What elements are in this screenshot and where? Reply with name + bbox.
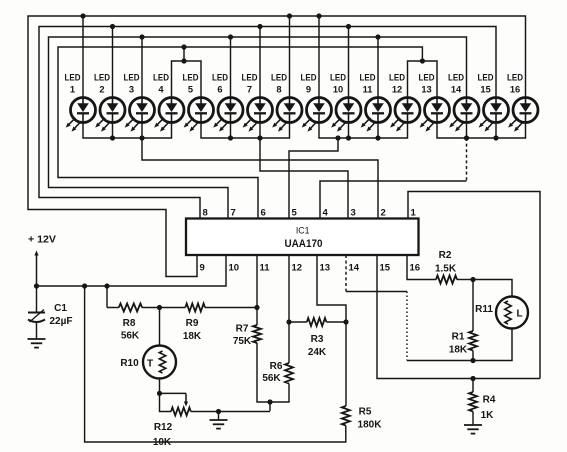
node +12V junction dots — [34, 283, 110, 288]
pin 16 label — [410, 263, 421, 274]
LED 8 — [271, 73, 302, 132]
resistor R6 56K — [262, 361, 293, 402]
LED 3 — [124, 73, 155, 132]
svg-text:24K: 24K — [308, 347, 327, 358]
svg-text:R5: R5 — [359, 407, 372, 418]
svg-text:LED: LED — [389, 73, 405, 83]
capacitor C1 22uF — [28, 286, 73, 339]
wire anode bus B (LEDs 2-7-10-15) routed down left side to pin 8 — [39, 24, 496, 219]
op-amp IC1 UAA170 LED driver — [186, 219, 419, 256]
wire pin 16 to R2 — [407, 255, 436, 280]
svg-text:11: 11 — [260, 263, 271, 274]
svg-text:4: 4 — [323, 208, 329, 219]
node R12/ground junction — [216, 409, 270, 414]
svg-text:LED: LED — [212, 73, 228, 83]
svg-text:15: 15 — [380, 263, 391, 274]
ground for R12/R7/R6 — [210, 412, 228, 429]
LED 11 — [360, 73, 391, 132]
svg-text:13: 13 — [421, 85, 431, 95]
LED 4 — [153, 73, 184, 132]
wire LED3 anode drop — [141, 37, 143, 97]
svg-text:9: 9 — [200, 263, 205, 274]
svg-text:6: 6 — [217, 85, 222, 95]
svg-text:10: 10 — [333, 85, 343, 95]
resistor R7 75K — [233, 324, 270, 403]
wire pin 10 to +12V rail — [37, 255, 227, 286]
LED 16 — [507, 73, 538, 132]
LED 14 — [448, 73, 479, 132]
LED 7 — [242, 73, 273, 132]
ground for R4 — [464, 425, 482, 434]
svg-text:R10: R10 — [120, 358, 139, 369]
svg-text:1: 1 — [70, 85, 75, 95]
svg-text:75K: 75K — [233, 336, 252, 347]
svg-text:10: 10 — [229, 263, 240, 274]
resistor R8 56K — [107, 304, 160, 342]
wire cathode bus LEDs 1-4, take-off at LED3 to pin 2 — [83, 123, 378, 219]
LED 12 — [389, 73, 420, 132]
svg-text:LED: LED — [271, 73, 287, 83]
svg-text:180K: 180K — [358, 420, 383, 431]
LED 10 — [330, 73, 361, 132]
svg-text:8: 8 — [203, 208, 208, 219]
svg-text:R4: R4 — [483, 395, 496, 406]
svg-text:R11: R11 — [475, 304, 493, 315]
svg-text:56K: 56K — [121, 331, 140, 342]
svg-text:1K: 1K — [481, 410, 495, 421]
node R8/R9/R10 junction — [157, 305, 162, 310]
svg-text:16: 16 — [410, 263, 421, 274]
svg-text:16: 16 — [510, 85, 520, 95]
svg-text:2: 2 — [381, 208, 386, 219]
svg-text:LED: LED — [507, 73, 523, 83]
pin 8 label — [203, 208, 208, 219]
svg-text:4: 4 — [158, 85, 164, 95]
LED 15 — [478, 73, 509, 132]
pin 3 label — [351, 208, 356, 219]
pin 12 label — [292, 263, 303, 274]
wire anode sub-bus LEDs 4-5 tap to bus D — [172, 44, 202, 97]
svg-text:18K: 18K — [449, 345, 468, 356]
svg-text:10K: 10K — [153, 437, 172, 448]
svg-text:LED: LED — [330, 73, 346, 83]
svg-text:R1: R1 — [452, 332, 465, 343]
svg-text:11: 11 — [363, 85, 373, 95]
svg-text:9: 9 — [306, 85, 311, 95]
svg-text:3: 3 — [351, 208, 356, 219]
resistor R3 24K — [289, 318, 346, 358]
svg-text:R2: R2 — [439, 250, 452, 261]
svg-text:LED: LED — [153, 73, 169, 83]
wire cathode bus LEDs 9-12, take-off to pin 5 — [289, 123, 408, 219]
wire anode bus C (LEDs 3-6-11-14) routed down left side to pin 7 — [49, 34, 467, 218]
ground for C1 — [28, 339, 46, 348]
LED 6 — [212, 73, 243, 132]
LED 1 — [65, 73, 96, 132]
svg-text:R7: R7 — [236, 324, 249, 335]
resistor R5 180K — [342, 406, 382, 431]
wire LED9 anode drop — [318, 16, 320, 97]
svg-text:LED: LED — [65, 73, 81, 83]
LED 5 — [183, 73, 214, 132]
svg-text:7: 7 — [231, 208, 236, 219]
svg-text:LED: LED — [94, 73, 110, 83]
pin 7 label — [231, 208, 236, 219]
wire LED8 anode drop — [289, 16, 291, 97]
wire pin 12 down through R3 node to R6 — [286, 255, 291, 363]
wire pin 11 down through R9 node to R7 — [254, 255, 259, 325]
svg-text:R3: R3 — [311, 334, 324, 345]
svg-text:22µF: 22µF — [50, 316, 73, 327]
wire pin 15 to R4 top node — [377, 255, 540, 379]
wire R2 node to R11 top — [473, 280, 512, 297]
wire pin 14 to R1 bottom node — [346, 255, 473, 361]
wire pin 1 to right-side rail down to R4 node — [408, 192, 540, 379]
svg-text:5: 5 — [292, 208, 298, 219]
wire anode bus D (LEDs 4-5-12-13) routed down left side to pin 6 — [58, 47, 437, 219]
wire LED1 anode drop — [82, 16, 84, 97]
svg-text:IC1: IC1 — [296, 226, 310, 236]
wire cathode bus LEDs 5-8, take-off at LED7 to pin 3 — [201, 123, 348, 219]
resistor R1 18K — [449, 280, 477, 361]
svg-text:8: 8 — [276, 85, 281, 95]
svg-text:2: 2 — [99, 85, 104, 95]
svg-text:T: T — [147, 359, 153, 370]
pin 5 label — [292, 208, 298, 219]
wire LED2 anode drop — [112, 27, 114, 98]
wire LED11 anode drop — [377, 37, 379, 97]
resistor R12 10K potentiometer — [153, 393, 219, 448]
node R10 bottom junction — [157, 391, 162, 396]
svg-text:LED: LED — [360, 73, 376, 83]
pin 6 label — [261, 208, 266, 219]
pin 4 label — [323, 208, 329, 219]
svg-text:+ 12V: + 12V — [28, 234, 56, 246]
wire anode bus A (LEDs 1-8-9-16) routed down left side to pin 9 — [28, 13, 526, 276]
pin 9 label — [200, 263, 205, 274]
pin 11 label — [260, 263, 271, 274]
transistor R11 light sensor — [473, 297, 528, 361]
svg-text:1: 1 — [411, 208, 417, 219]
node R6/R7 ground junction — [267, 399, 272, 411]
pin 2 label — [381, 208, 386, 219]
node R4 top junction — [470, 376, 475, 381]
svg-text:3: 3 — [129, 85, 134, 95]
node R2/R1/R11 junction — [470, 277, 475, 282]
node R1 bottom junction — [470, 358, 475, 363]
svg-text:LED: LED — [478, 73, 494, 83]
svg-text:13: 13 — [320, 263, 331, 274]
svg-text:12: 12 — [392, 85, 402, 95]
svg-text:UAA170: UAA170 — [285, 238, 323, 250]
svg-text:LED: LED — [301, 73, 317, 83]
transistor R10 temperature sensor — [120, 308, 176, 394]
wire LED7 anode drop — [259, 27, 261, 98]
pin 10 label — [229, 263, 240, 274]
svg-text:LED: LED — [183, 73, 199, 83]
svg-text:1.5K: 1.5K — [435, 264, 457, 275]
svg-text:56K: 56K — [262, 373, 281, 384]
wire R3 node down to R5 — [345, 322, 347, 406]
svg-text:C1: C1 — [54, 303, 67, 314]
resistor R9 18K — [160, 304, 258, 343]
pin 14 label — [349, 263, 360, 274]
LED 2 — [94, 73, 125, 132]
svg-text:15: 15 — [480, 85, 490, 95]
wire LED10 anode drop — [348, 27, 350, 98]
wire LED6 anode drop — [230, 37, 232, 97]
wire R8 feed from +12V rail — [106, 286, 108, 308]
resistor R2 1.5K — [435, 250, 473, 284]
svg-text:14: 14 — [451, 85, 462, 95]
power +12V supply arrow — [28, 234, 56, 287]
svg-text:7: 7 — [247, 85, 252, 95]
svg-text:18K: 18K — [183, 331, 202, 342]
wire cathode bus LEDs 13-16, take-off at LED14 to pin 4 — [320, 123, 526, 219]
svg-text:L: L — [516, 309, 522, 320]
svg-text:LED: LED — [242, 73, 258, 83]
wire +12V feed down to bottom rail and R5 — [85, 286, 346, 442]
svg-text:5: 5 — [188, 85, 193, 95]
pin 13 label — [320, 263, 331, 274]
LED 13 — [419, 73, 450, 132]
pin 15 label — [380, 263, 391, 274]
svg-text:R6: R6 — [270, 361, 283, 372]
LED 9 — [301, 73, 332, 132]
svg-text:LED: LED — [419, 73, 435, 83]
svg-text:12: 12 — [292, 263, 303, 274]
resistor R4 1K — [469, 379, 496, 426]
svg-text:R9: R9 — [186, 318, 199, 329]
svg-text:LED: LED — [448, 73, 464, 83]
svg-text:LED: LED — [124, 73, 140, 83]
pin 1 label — [411, 208, 417, 219]
wire pin 13 to R3/R5 node — [317, 255, 349, 325]
svg-text:14: 14 — [349, 263, 360, 274]
svg-text:6: 6 — [261, 208, 266, 219]
svg-text:R12: R12 — [154, 422, 173, 433]
svg-text:R8: R8 — [123, 318, 136, 329]
